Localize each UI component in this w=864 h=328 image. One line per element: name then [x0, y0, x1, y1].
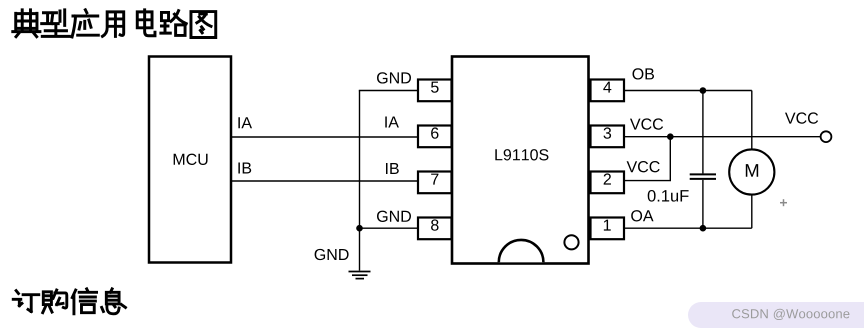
label VCC terminal [785, 112, 818, 123]
label OB [633, 68, 655, 79]
label OA [631, 210, 653, 221]
pin 1 box [591, 218, 625, 240]
pin 2 box [591, 172, 625, 194]
wire pin5 GND stub [359, 90, 418, 92]
IC notch [499, 240, 544, 262]
pin 5 box [418, 80, 452, 102]
wire OA: pin1 to motor [624, 227, 752, 229]
pin 8 box [418, 218, 452, 240]
wire pin8 GND stub [360, 227, 419, 229]
MCU box [149, 57, 231, 263]
wire pin2 VCC stub [624, 137, 670, 181]
wire OB: pin4 to motor [624, 90, 752, 92]
watermark band [688, 302, 864, 328]
label IA pin6 [385, 116, 399, 127]
capacitor C1 plates [690, 174, 716, 179]
label GND (ground node) [315, 249, 349, 260]
pin 3 box [591, 126, 625, 148]
VCC terminal circle [821, 131, 832, 142]
capacitor C1 wires [702, 91, 704, 229]
wire IA: MCU to pin 6 [231, 136, 418, 138]
label GND pin5 [377, 72, 411, 83]
junction dot GND net [356, 225, 363, 232]
junction dot OB/capacitor [700, 87, 707, 94]
label VCC pin3 [630, 118, 663, 129]
label IA (MCU side) [238, 117, 252, 128]
pin 4 box [591, 80, 625, 102]
op-amp/driver IC U1 body [452, 57, 589, 264]
motor polarity + [780, 199, 787, 206]
label GND pin8 [377, 211, 411, 222]
GND net vertical wire [359, 91, 361, 271]
watermark text CSDN @Wooooone [732, 309, 849, 320]
motor wire bottom [751, 195, 753, 229]
wire IB: MCU to pin 7 [231, 180, 418, 182]
pin 7 box [418, 172, 452, 194]
title 典型应用电路图 [13, 10, 216, 38]
MCU label [174, 154, 208, 165]
heading 订购信息 [13, 289, 125, 314]
pin 6 box [418, 126, 452, 148]
ground symbol [349, 272, 371, 279]
label 0.1uF [648, 190, 689, 202]
IC pin1 indicator circle [564, 235, 578, 249]
wire VCC: pin3 to terminal [624, 136, 821, 138]
IC label L9110S [495, 149, 548, 160]
junction dot VCC net [667, 133, 674, 140]
motor label M [746, 164, 758, 177]
junction dot OA/capacitor [700, 225, 707, 232]
label VCC pin2 [627, 161, 660, 172]
motor wire top [751, 91, 753, 150]
label IB (MCU side) [238, 162, 251, 173]
motor M circle [729, 149, 774, 194]
label IB pin7 [386, 163, 399, 174]
